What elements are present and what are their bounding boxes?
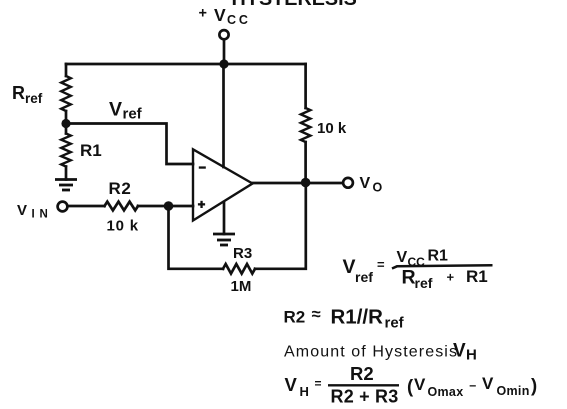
svg-text:HYSTERESIS: HYSTERESIS: [232, 0, 357, 10]
svg-text:ref: ref: [415, 275, 433, 291]
svg-text:N: N: [40, 209, 48, 221]
terminal +VCC: [219, 30, 228, 39]
svg-text:V: V: [397, 249, 408, 266]
wire R1 to ground: [65, 167, 68, 180]
svg-text:R: R: [12, 83, 25, 103]
svg-text:R2: R2: [284, 308, 306, 327]
node VCC rail junction: [219, 59, 228, 68]
wire op-amp ground pin: [223, 202, 226, 234]
svg-text:V: V: [482, 374, 494, 393]
svg-text:Amount of Hysteresis: Amount of Hysteresis: [284, 344, 458, 361]
svg-text:R1: R1: [80, 141, 102, 160]
svg-text:): ): [531, 375, 537, 396]
svg-text:ref: ref: [385, 315, 405, 332]
wire right rail: [304, 64, 307, 108]
wire Vin to plus input: [68, 205, 105, 208]
svg-text:V: V: [453, 341, 466, 362]
svg-text:–: –: [469, 379, 476, 393]
wire top rail: [66, 63, 306, 66]
svg-text:V: V: [109, 99, 122, 121]
node Vref junction: [61, 119, 70, 128]
terminal VO: [343, 178, 353, 188]
terminal VIN: [58, 202, 68, 212]
svg-text:=: =: [315, 377, 322, 391]
svg-text:10 k: 10 k: [107, 218, 139, 235]
svg-text:R2 + R3: R2 + R3: [331, 387, 399, 407]
wire output: [253, 182, 344, 185]
svg-text:V: V: [214, 5, 226, 25]
resistor R1: [61, 134, 71, 167]
wire feedback right: [255, 183, 306, 269]
svg-text:V: V: [285, 374, 298, 395]
svg-text:H: H: [466, 347, 477, 364]
svg-text:≈: ≈: [312, 306, 321, 324]
node plus input junction: [164, 201, 174, 211]
wire feedback left vertical: [169, 206, 224, 269]
svg-text:ref: ref: [25, 91, 43, 106]
svg-text:=: =: [377, 257, 385, 272]
svg-text:R1: R1: [428, 248, 449, 265]
resistor Rref: [61, 76, 71, 111]
op-amp minus sign: [199, 166, 206, 168]
svg-text:V: V: [343, 256, 356, 278]
resistor R3: [223, 264, 255, 274]
resistor 10k pull-up: [301, 108, 311, 142]
svg-text:R: R: [402, 267, 416, 289]
svg-text:(: (: [407, 376, 414, 397]
wire VCC stub: [223, 40, 226, 65]
node output junction: [301, 178, 311, 188]
ground op-amp: [213, 234, 235, 245]
svg-text:Omin: Omin: [497, 384, 530, 398]
svg-text:V: V: [17, 202, 27, 219]
svg-text:1M: 1M: [231, 278, 252, 295]
svg-text:R2: R2: [109, 179, 132, 198]
svg-text:V: V: [360, 175, 371, 192]
svg-text:ref: ref: [123, 106, 143, 123]
svg-text:CC: CC: [227, 13, 251, 27]
wire left vertical top: [65, 64, 68, 76]
op-amp plus sign: [198, 203, 205, 205]
svg-text:H: H: [300, 384, 309, 399]
op-amp U1: [193, 149, 253, 220]
resistor R2: [105, 202, 139, 211]
wire 10k to output node: [304, 142, 307, 183]
wire R2 to op-amp: [138, 205, 193, 208]
svg-text:+: +: [447, 270, 455, 285]
svg-text:R1: R1: [466, 267, 488, 286]
svg-text:ref: ref: [355, 269, 373, 285]
svg-text:V: V: [414, 375, 426, 394]
svg-text:10 k: 10 k: [317, 120, 347, 137]
svg-text:I: I: [32, 209, 35, 221]
svg-text:O: O: [373, 181, 383, 195]
svg-text:R2: R2: [350, 363, 374, 384]
ground below R1: [55, 180, 77, 191]
wire Vref: [66, 124, 193, 165]
wire Rref to node: [65, 111, 68, 134]
svg-text:Omax: Omax: [428, 385, 464, 399]
svg-text:R1//R: R1//R: [331, 306, 384, 329]
svg-text:R3: R3: [233, 245, 252, 262]
wire op-amp power pin: [222, 64, 225, 167]
svg-text:+: +: [199, 6, 207, 22]
